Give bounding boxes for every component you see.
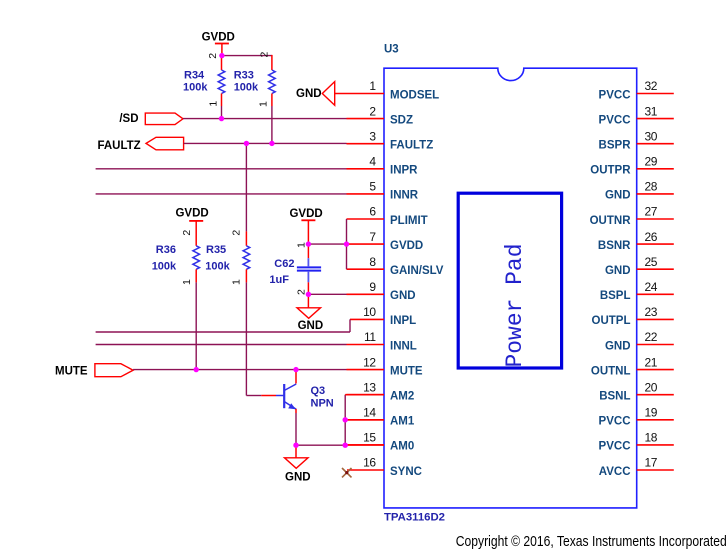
svg-text:100k: 100k [183,82,208,94]
pin 8 GAIN/SLV [347,255,444,277]
node junction at 296,369.6 [293,367,298,372]
pin 25 GND [605,255,674,277]
resistor R36 [152,230,200,285]
svg-text:3: 3 [369,129,376,143]
svg-text:100k: 100k [234,82,259,94]
svg-text:BSPL: BSPL [600,290,631,302]
svg-text:INPR: INPR [390,165,418,177]
svg-text:Copyright © 2016, Texas Instru: Copyright © 2016, Texas Instruments Inco… [456,533,727,550]
wire R36 bottom to MUTE net [195,282,197,369]
svg-text:1: 1 [181,279,193,285]
svg-text:7: 7 [369,230,376,244]
svg-text:GAIN/SLV: GAIN/SLV [390,265,444,277]
svg-text:AVCC: AVCC [599,466,631,478]
svg-text:32: 32 [645,79,658,93]
resistor R34 [183,53,225,107]
node junction at 296,445.2 [293,443,298,448]
pin 13 AM2 [347,380,415,402]
svg-text:OUTNR: OUTNR [590,215,632,227]
svg-text:INNL: INNL [390,340,417,352]
svg-text:C62: C62 [274,258,294,270]
svg-text:19: 19 [645,406,658,420]
node MUTE input port [55,364,133,378]
svg-text:NPN: NPN [311,397,334,409]
svg-text:1uF: 1uF [269,274,289,286]
node junction at 271.9,143.4 [269,141,274,146]
svg-text:1: 1 [231,279,243,285]
svg-text:16: 16 [363,456,376,470]
svg-text:R36: R36 [156,244,176,256]
svg-text:100k: 100k [205,261,230,273]
svg-text:1: 1 [208,101,220,107]
no-connect X at pin 16 SYNC [342,468,352,477]
svg-text:1: 1 [296,242,308,248]
svg-text:INNR: INNR [390,190,419,202]
svg-text:AM2: AM2 [390,391,414,403]
wire FAULTZ to pin 3 [184,142,347,144]
ground GND arrow at pin 1 MODSEL [296,82,384,106]
svg-text:GND: GND [605,190,631,202]
node junction at 346.5,244.1 [344,241,349,246]
wire INPL to pin 10 with jog [96,331,350,333]
svg-text:OUTPR: OUTPR [590,165,631,177]
pin 29 OUTPR [590,155,674,177]
wire Q3 emitter down [295,413,297,445]
pin 30 BSPR [599,129,674,151]
pin 5 INNR [347,180,419,202]
svg-text:PVCC: PVCC [599,441,631,453]
svg-text:15: 15 [363,431,376,445]
svg-text:MUTE: MUTE [55,366,88,378]
wire R33 top stub [271,55,273,70]
svg-text:/SD: /SD [119,113,138,125]
svg-text:12: 12 [363,355,376,369]
svg-text:28: 28 [645,180,658,194]
node junction at 345.2,445.2 [343,443,348,448]
svg-text:GND: GND [296,88,322,100]
wire MUTE to pin 12 [133,369,346,371]
power symbol GVDD middle [175,208,208,246]
svg-text:GND: GND [605,265,631,277]
svg-text:GND: GND [390,290,416,302]
wire R34 bottom to SDZ net [221,106,223,119]
node junction at 221.9,55.6 [219,53,224,58]
svg-text:R35: R35 [206,244,226,256]
svg-text:R34: R34 [184,69,205,81]
svg-text:2: 2 [207,53,219,59]
IC U3 TPA3116D2 body [384,68,637,508]
svg-text:27: 27 [645,205,658,219]
svg-text:OUTPL: OUTPL [592,315,631,327]
svg-text:AM0: AM0 [390,441,414,453]
wire emitter to pins 13-15 bracket [296,444,345,446]
svg-text:BSNR: BSNR [598,240,631,252]
svg-text:U3: U3 [384,43,399,55]
pin 20 BSNL [599,380,674,402]
node junction at 308.4,244.1 [306,241,311,246]
ground GND below Q3 emitter [285,445,311,483]
svg-text:1: 1 [369,79,376,93]
power symbol GVDD top [202,32,235,56]
node junction at 308.4,294.3 [306,292,311,297]
node FAULTZ input port [97,137,183,152]
svg-text:29: 29 [645,155,658,169]
pin 9 GND [347,280,416,302]
svg-text:21: 21 [645,355,658,369]
svg-text:9: 9 [369,280,376,294]
pin 32 PVCC [599,79,674,101]
svg-text:PVCC: PVCC [599,114,631,126]
wire C62 bottom to pin 9 [308,293,346,295]
pin 22 GND [605,330,674,352]
wire FAULTZ net down to R35 top [245,143,247,231]
resistor R35 [205,230,249,285]
svg-text:2: 2 [231,230,243,236]
svg-text:8: 8 [369,255,376,269]
ground GND below C62 [297,294,323,332]
svg-text:GND: GND [298,320,324,332]
svg-text:R33: R33 [234,69,254,81]
svg-text:22: 22 [645,330,658,344]
svg-text:FAULTZ: FAULTZ [97,140,140,152]
node junction at 221.5,118.6 [219,116,224,121]
svg-text:BSPR: BSPR [599,140,632,152]
svg-text:18: 18 [645,431,658,445]
svg-text:30: 30 [645,129,658,143]
node junction at 345.2,419.8 [343,417,348,422]
pin 23 OUTPL [592,305,674,327]
pin 18 PVCC [599,431,674,453]
svg-text:2: 2 [369,104,376,118]
wire bracket pins 13-15 vertical [344,395,346,446]
svg-text:17: 17 [645,456,658,470]
svg-text:GVDD: GVDD [202,32,235,44]
svg-text:GVDD: GVDD [390,240,423,252]
node junction at 196.2,369.6 [194,367,199,372]
svg-text:PLIMIT: PLIMIT [390,215,428,227]
wire INNR to pin 5 [96,193,347,195]
pin 2 SDZ [347,104,414,126]
pin 17 AVCC [599,456,674,478]
svg-text:GND: GND [605,340,631,352]
resistor R33 [234,52,276,108]
pin 6 PLIMIT [347,205,428,227]
wire pin14 bracket stub [345,419,384,421]
pin 24 BSPL [600,280,674,302]
pin 4 INPR [347,155,419,177]
pin 11 INNL [347,330,417,352]
svg-text:2: 2 [296,289,308,295]
wire /SD to pin 2 SDZ [183,118,347,120]
svg-text:31: 31 [645,104,658,118]
svg-text:BSNL: BSNL [599,391,630,403]
svg-text:6: 6 [369,205,376,219]
pin 28 GND [605,180,674,202]
svg-text:25: 25 [645,255,658,269]
svg-text:MUTE: MUTE [390,365,423,377]
svg-text:Q3: Q3 [311,385,326,397]
svg-text:14: 14 [363,406,376,420]
wire R35 bottom to Q3 base [245,282,247,395]
pin 27 OUTNR [590,205,674,227]
svg-text:4: 4 [369,155,376,169]
svg-text:GVDD: GVDD [175,208,208,220]
svg-text:SYNC: SYNC [390,466,422,478]
svg-text:GVDD: GVDD [289,208,322,220]
svg-text:10: 10 [363,305,376,319]
pin 3 FAULTZ [347,129,434,151]
svg-text:Power Pad: Power Pad [502,244,528,368]
pin 10 INPL [350,305,416,327]
pin 12 MUTE [347,355,423,377]
svg-text:MODSEL: MODSEL [390,89,439,101]
pin 21 OUTNL [591,355,674,377]
pin 14 AM1 [347,406,415,428]
svg-text:26: 26 [645,230,658,244]
node junction at 246.4,143.4 [244,141,249,146]
svg-text:PVCC: PVCC [599,416,631,428]
svg-text:2: 2 [259,52,271,58]
svg-text:INPL: INPL [390,315,416,327]
pin 26 BSNR [598,230,674,252]
pin 16 SYNC [347,456,422,478]
pin 1 MODSEL [369,79,439,101]
wire C62 top to pins 6-7-8 bracket [308,243,346,245]
svg-text:20: 20 [645,380,658,394]
svg-text:100k: 100k [152,261,177,273]
svg-text:FAULTZ: FAULTZ [390,140,433,152]
wire pin15 bracket stub [345,444,384,446]
svg-text:5: 5 [369,180,376,194]
wire GVDD rail to R33 top [222,55,272,57]
svg-text:2: 2 [181,230,193,236]
svg-text:OUTNL: OUTNL [591,365,631,377]
node /SD input port [119,113,183,125]
svg-text:1: 1 [258,101,270,107]
svg-text:GND: GND [285,472,311,484]
wire bracket pins 6-8 vertical [346,219,348,269]
svg-text:TPA3116D2: TPA3116D2 [384,511,445,523]
svg-text:PVCC: PVCC [599,89,631,101]
wire INNL to pin 11 [96,344,347,346]
wire INPR to pin 4 [96,168,347,170]
pin 19 PVCC [599,406,674,428]
svg-text:11: 11 [364,330,376,344]
capacitor C62 [269,242,321,295]
svg-text:SDZ: SDZ [390,114,413,126]
pin 31 PVCC [599,104,674,126]
svg-text:AM1: AM1 [390,416,415,428]
wire pin13 bracket stub [345,394,384,396]
transistor Q3 NPN [261,370,333,413]
svg-text:23: 23 [645,305,658,319]
power symbol GVDD at C62 [289,208,322,244]
svg-text:24: 24 [645,280,658,294]
wire R33 bottom to FAULTZ net [271,106,273,143]
pin 7 GVDD [347,230,424,252]
pin 15 AM0 [347,431,415,453]
node Power Pad [458,193,561,368]
svg-text:13: 13 [363,380,376,394]
